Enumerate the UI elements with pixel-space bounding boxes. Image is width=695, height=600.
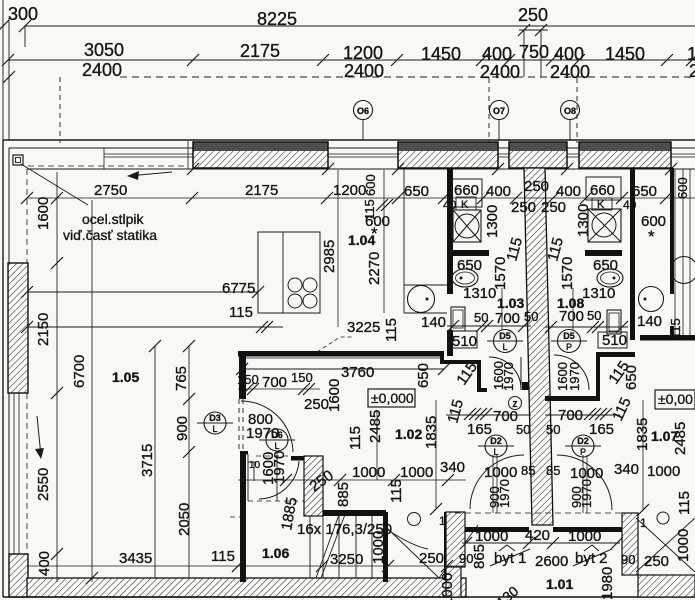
svg-text:650: 650 bbox=[457, 257, 482, 274]
svg-text:byt 2: byt 2 bbox=[575, 550, 608, 567]
svg-text:3050: 3050 bbox=[84, 40, 124, 60]
svg-text:250: 250 bbox=[511, 199, 536, 216]
svg-text:400: 400 bbox=[482, 44, 512, 64]
lintel blocks bbox=[193, 142, 671, 168]
svg-text:O6: O6 bbox=[357, 106, 369, 116]
svg-text:340: 340 bbox=[614, 461, 639, 478]
svg-text:1835: 1835 bbox=[634, 418, 651, 451]
svg-text:1: 1 bbox=[439, 514, 446, 528]
±0,000 boxes bbox=[368, 389, 415, 407]
svg-text:O7: O7 bbox=[493, 106, 505, 116]
svg-text:10: 10 bbox=[249, 460, 261, 471]
svg-text:D5: D5 bbox=[499, 331, 511, 341]
svg-text:140: 140 bbox=[421, 314, 446, 331]
svg-text:1300: 1300 bbox=[575, 204, 592, 237]
svg-text:2050: 2050 bbox=[176, 503, 193, 536]
svg-text:2400: 2400 bbox=[550, 62, 590, 82]
6775 / 115 dim lines bbox=[27, 291, 258, 293]
arrow left bottom bbox=[37, 416, 41, 456]
svg-text:700: 700 bbox=[558, 407, 583, 424]
svg-text:2400: 2400 bbox=[82, 60, 122, 80]
svg-text:600: 600 bbox=[363, 174, 378, 196]
svg-text:2270: 2270 bbox=[366, 252, 383, 285]
svg-text:3225: 3225 bbox=[347, 319, 380, 336]
steel column square bbox=[13, 155, 23, 165]
svg-text:420: 420 bbox=[525, 527, 550, 544]
svg-text:885: 885 bbox=[335, 482, 352, 507]
svg-text:P: P bbox=[580, 447, 586, 457]
svg-text:1600: 1600 bbox=[326, 379, 343, 412]
svg-text:2175: 2175 bbox=[240, 41, 280, 61]
svg-text:viď.časť statika: viď.časť statika bbox=[63, 227, 157, 243]
svg-text:700: 700 bbox=[559, 308, 584, 325]
svg-text:650: 650 bbox=[404, 183, 429, 200]
svg-text:±0,000: ±0,000 bbox=[371, 390, 414, 406]
svg-text:±0,00: ±0,00 bbox=[658, 391, 693, 407]
svg-text:700: 700 bbox=[493, 408, 518, 425]
D5 door left bbox=[489, 357, 521, 389]
svg-text:P: P bbox=[566, 342, 572, 352]
svg-text:900: 900 bbox=[174, 416, 191, 441]
svg-text:40: 40 bbox=[443, 198, 457, 212]
svg-text:510: 510 bbox=[452, 333, 477, 350]
svg-text:1.04: 1.04 bbox=[348, 232, 375, 248]
svg-text:765: 765 bbox=[173, 366, 190, 391]
svg-text:50: 50 bbox=[587, 308, 601, 323]
svg-text:115: 115 bbox=[676, 491, 693, 515]
svg-text:1300: 1300 bbox=[484, 205, 501, 238]
svg-text:K: K bbox=[597, 199, 605, 211]
svg-text:700: 700 bbox=[262, 374, 287, 391]
svg-text:510: 510 bbox=[602, 332, 627, 349]
svg-text:50: 50 bbox=[474, 310, 488, 325]
660 box + washing machine left bbox=[451, 179, 482, 207]
svg-text:D2: D2 bbox=[577, 436, 589, 446]
svg-text:2485: 2485 bbox=[367, 410, 384, 443]
svg-text:K: K bbox=[461, 199, 469, 211]
3225 dashed leader bbox=[317, 337, 352, 352]
svg-text:2150: 2150 bbox=[35, 313, 52, 346]
svg-text:650: 650 bbox=[415, 363, 432, 388]
svg-text:1000: 1000 bbox=[675, 529, 692, 562]
svg-text:1.06: 1.06 bbox=[262, 545, 289, 561]
svg-text:2175: 2175 bbox=[245, 182, 278, 199]
svg-text:L: L bbox=[493, 447, 498, 457]
svg-text:*: * bbox=[648, 227, 655, 246]
ticks top bbox=[19, 20, 31, 32]
svg-text:165: 165 bbox=[589, 421, 614, 438]
svg-text:1970: 1970 bbox=[497, 479, 512, 508]
window marker circles bbox=[354, 101, 580, 120]
svg-text:1000: 1000 bbox=[439, 573, 456, 600]
D5 P circle bbox=[558, 330, 581, 353]
svg-text:2: 2 bbox=[689, 61, 695, 81]
D2 doors bbox=[455, 512, 630, 514]
unit2 bottom right room diagonals bbox=[636, 518, 695, 572]
svg-text:150: 150 bbox=[291, 370, 313, 385]
svg-text:750: 750 bbox=[519, 42, 549, 62]
svg-text:1310: 1310 bbox=[582, 285, 615, 302]
svg-text:6700: 6700 bbox=[71, 355, 88, 388]
svg-text:8225: 8225 bbox=[257, 9, 297, 29]
svg-text:660: 660 bbox=[454, 182, 479, 199]
svg-text:3435: 3435 bbox=[119, 550, 152, 567]
svg-text:2985: 2985 bbox=[321, 240, 338, 273]
svg-text:2485: 2485 bbox=[672, 422, 689, 455]
svg-text:1000: 1000 bbox=[370, 531, 387, 564]
arrow left top bbox=[128, 172, 172, 176]
svg-text:40: 40 bbox=[623, 198, 637, 212]
svg-text:115: 115 bbox=[229, 304, 253, 321]
svg-text:1000: 1000 bbox=[484, 464, 517, 481]
hall dim line bbox=[462, 542, 620, 544]
svg-text:1000: 1000 bbox=[647, 463, 680, 480]
svg-text:300: 300 bbox=[8, 4, 38, 24]
svg-text:115: 115 bbox=[362, 199, 377, 220]
svg-text:O8: O8 bbox=[564, 106, 576, 116]
svg-text:6775: 6775 bbox=[222, 280, 255, 297]
rotated (vertical) texts bbox=[35, 174, 693, 600]
svg-text:byt 1: byt 1 bbox=[494, 550, 527, 567]
svg-text:1970: 1970 bbox=[567, 362, 582, 391]
svg-text:115: 115 bbox=[388, 479, 405, 503]
svg-text:1000: 1000 bbox=[352, 464, 385, 481]
svg-text:L: L bbox=[212, 424, 217, 434]
svg-text:1570: 1570 bbox=[559, 257, 576, 290]
svg-text:150: 150 bbox=[237, 372, 259, 387]
svg-text:3250: 3250 bbox=[330, 551, 363, 568]
svg-text:D5: D5 bbox=[563, 331, 575, 341]
svg-text:90: 90 bbox=[621, 552, 635, 567]
svg-text:ocel.stlpik: ocel.stlpik bbox=[82, 211, 144, 227]
svg-text:85: 85 bbox=[546, 463, 560, 478]
svg-text:1200: 1200 bbox=[333, 182, 366, 199]
top dimension lines bbox=[25, 25, 695, 27]
svg-text:3760: 3760 bbox=[341, 364, 374, 381]
svg-text:1970: 1970 bbox=[501, 362, 516, 391]
700 dim lines bbox=[446, 414, 531, 416]
svg-text:250: 250 bbox=[518, 5, 548, 25]
svg-text:115: 115 bbox=[347, 426, 364, 450]
svg-text:1.01: 1.01 bbox=[546, 576, 573, 592]
D6 circle bbox=[266, 429, 288, 451]
svg-text:400: 400 bbox=[486, 183, 511, 200]
svg-text:1970: 1970 bbox=[246, 425, 279, 442]
D3 circle bbox=[204, 412, 226, 434]
svg-text:50: 50 bbox=[546, 422, 560, 437]
svg-text:2400: 2400 bbox=[480, 62, 520, 82]
svg-text:650: 650 bbox=[593, 257, 618, 274]
svg-text:1450: 1450 bbox=[421, 44, 461, 64]
svg-text:2550: 2550 bbox=[35, 468, 52, 501]
svg-text:250: 250 bbox=[524, 178, 549, 195]
svg-text:1: 1 bbox=[640, 516, 647, 530]
svg-text:700: 700 bbox=[495, 310, 520, 327]
svg-text:1600: 1600 bbox=[35, 197, 52, 230]
top dim texts bbox=[8, 4, 695, 82]
svg-text:165: 165 bbox=[467, 421, 492, 438]
svg-text:1000: 1000 bbox=[475, 528, 508, 545]
svg-text:1570: 1570 bbox=[492, 257, 509, 290]
svg-text:1.03: 1.03 bbox=[497, 295, 524, 311]
svg-text:3715: 3715 bbox=[139, 444, 156, 477]
svg-text:115: 115 bbox=[668, 318, 683, 339]
svg-text:400: 400 bbox=[556, 183, 581, 200]
svg-text:340: 340 bbox=[440, 459, 465, 476]
svg-text:1835: 1835 bbox=[423, 416, 440, 449]
svg-text:400: 400 bbox=[36, 551, 53, 576]
svg-text:50: 50 bbox=[524, 309, 538, 324]
svg-text:1980: 1980 bbox=[599, 567, 616, 600]
svg-text:2400: 2400 bbox=[344, 61, 384, 81]
svg-text:865: 865 bbox=[471, 544, 488, 569]
svg-text:L: L bbox=[274, 441, 279, 451]
bathroom dim lines bbox=[447, 325, 531, 327]
D5 L circle bbox=[494, 330, 517, 353]
svg-text:2600: 2600 bbox=[535, 553, 568, 570]
svg-text:1000: 1000 bbox=[400, 464, 433, 481]
Z circle bbox=[509, 397, 522, 410]
svg-text:D3: D3 bbox=[209, 413, 221, 423]
svg-text:L: L bbox=[502, 342, 507, 352]
svg-text:115: 115 bbox=[211, 548, 235, 565]
svg-text:400: 400 bbox=[554, 44, 584, 64]
svg-text:140: 140 bbox=[637, 313, 662, 330]
svg-text:250: 250 bbox=[644, 553, 669, 570]
svg-text:1970: 1970 bbox=[271, 451, 288, 484]
svg-text:50: 50 bbox=[516, 422, 530, 437]
svg-text:250: 250 bbox=[419, 550, 444, 567]
svg-text:250: 250 bbox=[541, 199, 566, 216]
stairs bbox=[310, 512, 478, 578]
svg-text:1.02: 1.02 bbox=[395, 426, 422, 442]
svg-text:660: 660 bbox=[590, 182, 615, 199]
svg-text:1200: 1200 bbox=[343, 43, 383, 63]
svg-text:1.05: 1.05 bbox=[112, 369, 139, 385]
svg-text:1970: 1970 bbox=[579, 479, 594, 508]
svg-text:600: 600 bbox=[675, 177, 690, 199]
byt strikethrough + roofs bbox=[499, 545, 515, 551]
svg-text:1000: 1000 bbox=[568, 528, 601, 545]
svg-text:85: 85 bbox=[521, 463, 535, 478]
svg-text:2750: 2750 bbox=[94, 182, 127, 199]
svg-text:115: 115 bbox=[383, 318, 400, 342]
svg-text:1450: 1450 bbox=[605, 44, 645, 64]
